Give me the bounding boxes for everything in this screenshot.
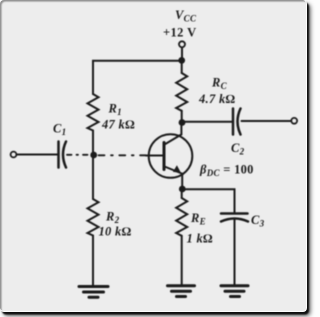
node base junction [90,152,97,159]
wire top junction down to RC [181,61,183,73]
wire input to C1 [17,154,58,156]
label beta DC [199,163,254,179]
svg-text:C1: C1 [53,122,66,138]
wire emitter junction to C3 branch [182,189,234,212]
svg-text:+12 V: +12 V [163,26,197,40]
svg-text:4.7 kΩ: 4.7 kΩ [198,92,235,106]
wire C1 to base junction (dash-dot) [67,154,90,156]
wire collector up to RC junction [180,123,182,135]
capacitor C1 [59,142,67,168]
wire top horizontal [93,61,182,94]
resistor R1 [88,94,99,131]
output terminal [291,118,297,124]
ground (right) [221,286,248,297]
svg-text:RC: RC [211,76,228,92]
svg-text:10 kΩ: 10 kΩ [99,225,132,239]
wire RE to ground [181,236,183,285]
svg-text:C2: C2 [231,141,245,157]
node top junction [178,57,185,64]
wire emitter down to emitter junction [181,174,183,189]
node emitter junction [179,186,186,193]
svg-text:VCC: VCC [175,8,197,24]
wire R2 to ground [92,236,94,287]
wire collector junction to C2 [182,121,232,123]
svg-text:R1: R1 [108,102,122,118]
VCC terminal [179,41,185,47]
svg-text:R2: R2 [105,210,120,226]
node VCC label [163,8,197,40]
wire R1 to R2 [92,131,94,200]
svg-text:1 kΩ: 1 kΩ [187,232,214,246]
input terminal [11,152,17,158]
wire base junction to transistor base (dash-dot) [99,154,147,156]
node collector junction [179,119,186,126]
capacitor C3 [221,214,248,222]
ground (middle) [168,286,195,297]
wire emitter junction down to RE [181,189,183,198]
wire C3 to ground [234,220,236,286]
transistor Q1 [146,134,192,178]
svg-text:C3: C3 [251,213,265,229]
resistor R2 [88,199,99,236]
svg-text:47 kΩ: 47 kΩ [101,118,135,132]
resistor RE [176,198,187,236]
resistor RC [176,73,187,111]
wire RC to collector junction [181,111,183,123]
wire VCC terminal to top junction [181,48,183,61]
svg-text:RE: RE [190,211,206,227]
ground (left) [79,287,108,298]
svg-text:βDC = 100: βDC = 100 [199,163,254,179]
capacitor C2 [233,109,241,135]
wire C2 to output terminal [242,120,291,122]
